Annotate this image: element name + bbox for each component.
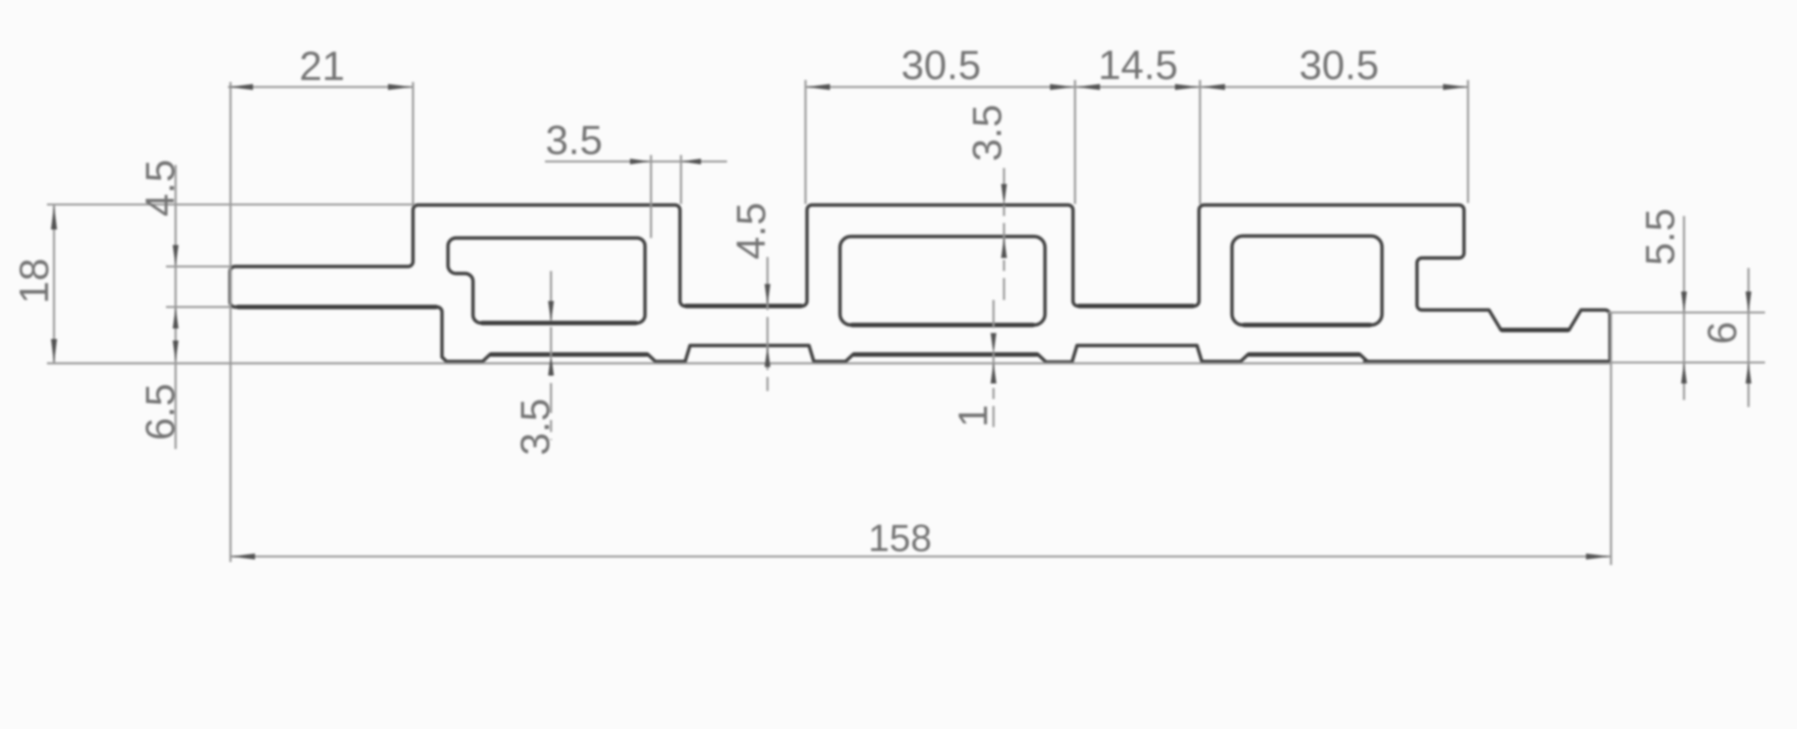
svg-text:18: 18 [11,258,57,304]
svg-text:5.5: 5.5 [1637,209,1683,266]
svg-text:3.5: 3.5 [512,399,558,456]
svg-text:6.5: 6.5 [137,384,183,441]
svg-text:30.5: 30.5 [1299,42,1379,88]
svg-text:3.5: 3.5 [546,117,603,163]
svg-text:1: 1 [950,405,996,428]
svg-text:3.5: 3.5 [964,105,1010,162]
svg-text:21: 21 [299,43,345,89]
svg-text:14.5: 14.5 [1098,42,1178,88]
svg-text:4.5: 4.5 [728,203,774,260]
svg-text:158: 158 [868,518,931,560]
svg-text:6: 6 [1699,322,1745,345]
svg-text:4.5: 4.5 [137,160,183,217]
svg-text:30.5: 30.5 [901,42,981,88]
